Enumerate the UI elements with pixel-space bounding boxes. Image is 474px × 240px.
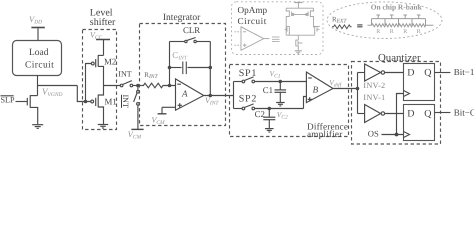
svg-text:INV-2: INV-2 — [363, 81, 385, 90]
svg-text:C2: C2 — [255, 109, 265, 119]
svg-text:VC2: VC2 — [277, 110, 288, 121]
svg-text:VINT: VINT — [205, 96, 219, 107]
svg-text:On chip R-bank: On chip R-bank — [371, 2, 423, 11]
svg-text:R: R — [403, 29, 407, 35]
svg-text:OpAmp: OpAmp — [238, 5, 268, 15]
svg-text:Q: Q — [424, 67, 432, 78]
svg-text:A: A — [181, 88, 188, 98]
svg-text:Circuit: Circuit — [25, 61, 54, 71]
svg-text:amplifier: amplifier — [307, 129, 342, 139]
svg-text:REXT: REXT — [332, 15, 347, 24]
svg-text:VDD: VDD — [29, 14, 42, 25]
svg-text:Quantizer: Quantizer — [378, 52, 421, 64]
svg-text:Load: Load — [29, 48, 49, 58]
svg-text:Circuit: Circuit — [238, 16, 267, 26]
svg-text:SP2: SP2 — [239, 94, 257, 105]
svg-text:shifter: shifter — [90, 17, 116, 28]
svg-text:M1: M1 — [105, 97, 117, 107]
svg-text:Q: Q — [424, 108, 432, 119]
svg-text:Bit−1: Bit−1 — [454, 67, 474, 77]
svg-text:C1: C1 — [263, 85, 273, 95]
svg-text:D: D — [407, 67, 414, 78]
svg-text:INT: INT — [118, 70, 131, 79]
svg-text:R: R — [376, 29, 380, 35]
svg-text:VCM: VCM — [128, 129, 142, 140]
svg-text:Vdiff: Vdiff — [329, 78, 342, 89]
svg-text:INV-1: INV-1 — [363, 93, 385, 102]
svg-text:Bit−C: Bit−C — [454, 107, 474, 117]
svg-text:D: D — [407, 108, 414, 119]
svg-text:R: R — [417, 29, 421, 35]
svg-text:R: R — [390, 29, 394, 35]
svg-text:M2: M2 — [104, 56, 116, 66]
svg-text:CINT: CINT — [172, 50, 188, 61]
svg-text:VC1: VC1 — [270, 69, 281, 80]
svg-text:OS: OS — [368, 128, 379, 138]
svg-text:VCM: VCM — [152, 116, 166, 127]
svg-text:SP1: SP1 — [239, 68, 257, 79]
svg-text:CLR: CLR — [183, 25, 200, 35]
svg-text:VCC: VCC — [90, 31, 103, 41]
svg-text:RINT: RINT — [144, 71, 158, 80]
svg-text:INT: INT — [121, 95, 130, 108]
svg-text:Integrator: Integrator — [163, 13, 201, 23]
svg-text:VVGND: VVGND — [42, 87, 63, 98]
svg-text:SLP: SLP — [1, 96, 16, 105]
svg-text:B: B — [313, 84, 319, 94]
